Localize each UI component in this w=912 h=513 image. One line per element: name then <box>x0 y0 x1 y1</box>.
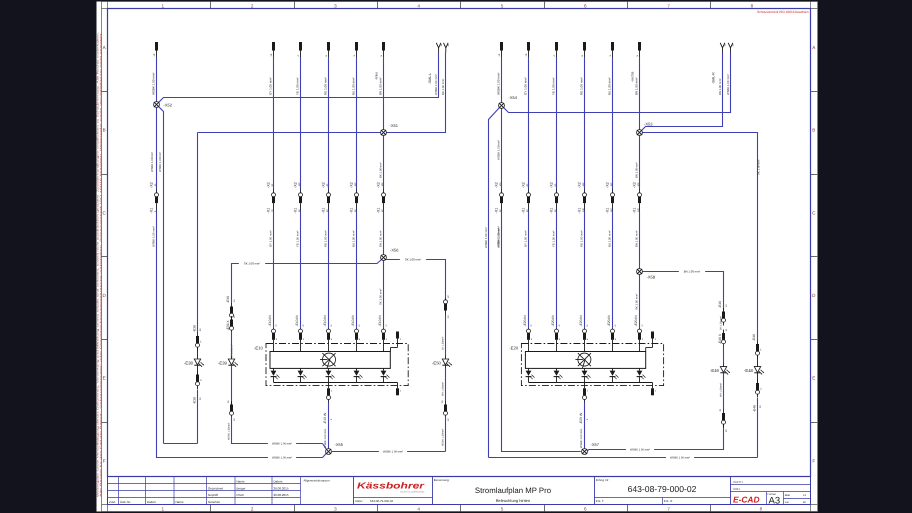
terminal 2 stub -E20 <box>646 332 657 352</box>
svg-text:-E10.IN: -E10.IN <box>351 315 355 327</box>
svg-text:-E48: -E48 <box>752 334 756 341</box>
logo cell Kaessbohrer <box>354 477 433 505</box>
wire -E39 return to -XS5 <box>323 444 327 450</box>
svg-text:-X57: -X57 <box>591 442 600 447</box>
plant codes and format cell <box>731 480 811 507</box>
wire -X54 strand B down <box>501 109 503 189</box>
terminal pin -links (BN) <box>380 42 385 57</box>
svg-text:RD 1.00 mm²: RD 1.00 mm² <box>324 77 328 95</box>
module input pin -E20.IN 5 <box>579 315 589 352</box>
svg-text:13C: 13C <box>381 182 384 186</box>
svg-text:14C: 14C <box>298 182 301 186</box>
wire -E49 to lower pin <box>723 396 725 410</box>
svg-text:+KB1: +KB1 <box>733 487 741 491</box>
svg-text:WSBK 1.00 mm²: WSBK 1.00 mm² <box>497 73 501 95</box>
svg-text:-E39 X: -E39 X <box>226 320 230 331</box>
ground rail strand A to -E48 <box>489 457 758 459</box>
svg-text:1C: 1C <box>447 295 450 298</box>
terminal pin right c1 (WSBK) <box>498 42 503 57</box>
svg-text:-E39: -E39 <box>218 360 228 365</box>
connector -X2/-X1 pins column 6 right circuit <box>632 182 641 213</box>
svg-text:-X2: -X2 <box>266 182 270 188</box>
svg-text:1C: 1C <box>154 183 157 186</box>
pin -E39 <box>226 296 236 321</box>
cathode rail -E20 <box>529 382 653 384</box>
wire c3 upper right <box>556 57 558 189</box>
svg-text:643-08-79-000-02: 643-08-79-000-02 <box>628 484 697 494</box>
svg-text:WSBK 1.00 mm²: WSBK 1.00 mm² <box>497 226 501 247</box>
svg-text:2: 2 <box>251 506 254 511</box>
svg-text:BU 1.00 mm²: BU 1.00 mm² <box>352 77 356 95</box>
wire c2 upper right <box>528 57 530 189</box>
svg-text:WH 1.00mm²: WH 1.00mm² <box>442 382 445 396</box>
socket -SML-L pin 10 <box>444 43 451 53</box>
svg-text:BU 1.00 mm²: BU 1.00 mm² <box>608 77 612 95</box>
terminal pin (GY) <box>270 42 275 57</box>
connector -X2/-X1 pins column 5 left circuit <box>349 182 358 213</box>
svg-text:WSBK 1.00 mm²: WSBK 1.00 mm² <box>152 226 156 247</box>
svg-text:Berger: Berger <box>237 486 246 490</box>
LED D1 in -E10 <box>271 368 280 382</box>
connector -X2/-X1 pins column 1 left circuit <box>149 182 158 213</box>
svg-text:3C: 3C <box>271 183 274 186</box>
svg-text:-X1: -X1 <box>149 208 153 214</box>
svg-text:-E50: -E50 <box>432 360 442 365</box>
svg-text:-X58: -X58 <box>647 275 656 280</box>
svg-text:BU 1.00 mm²: BU 1.00 mm² <box>352 230 356 247</box>
pin 1 of -E38 <box>192 325 202 351</box>
wire c6 below -XS6 <box>383 261 385 328</box>
LED D5 in -E20 <box>637 368 646 382</box>
column ticks top band <box>211 2 711 9</box>
svg-text:F: F <box>103 458 106 463</box>
LED D2 in -E20 <box>554 368 563 382</box>
wire label SK 1.00 mm2 left <box>239 261 265 265</box>
svg-text:5: 5 <box>501 4 504 9</box>
svg-text:Beleuchtung hinten: Beleuchtung hinten <box>496 498 530 503</box>
wire right c2 to -E20 <box>528 211 530 328</box>
wire c2 upper <box>273 57 275 189</box>
svg-text:BN 1.00 mm²: BN 1.00 mm² <box>379 77 383 95</box>
svg-text:-E48: -E48 <box>752 405 756 412</box>
terminal 1 right -E10 <box>396 383 402 396</box>
splice -X53 <box>637 130 643 136</box>
terminal 2 stub -E10 <box>391 332 402 352</box>
module input pin -E10.IN 4 <box>295 315 305 352</box>
svg-text:-E20.IN: -E20.IN <box>523 315 527 327</box>
wire c6 below -X51 <box>383 136 385 189</box>
terminal pin right c2 (GY) <box>525 42 530 57</box>
title block outline <box>108 477 811 505</box>
svg-text:-X1: -X1 <box>549 208 553 214</box>
pin 2 of -E38 <box>196 365 203 389</box>
wire label WSBK upper rail <box>268 441 296 445</box>
row ticks left band <box>102 92 108 423</box>
svg-text:26.08.2015: 26.08.2015 <box>274 493 289 497</box>
svg-text:-X1: -X1 <box>521 208 525 214</box>
svg-text:Blatt: Blatt <box>785 494 790 497</box>
svg-text:Stromlaufplan MP Pro: Stromlaufplan MP Pro <box>475 486 552 495</box>
svg-text:Geprüft: Geprüft <box>208 493 218 497</box>
svg-text:-X53: -X53 <box>644 122 653 127</box>
terminal pin 10 (WSBK feed) <box>153 42 158 57</box>
svg-text:-E10.IN: -E10.IN <box>378 315 382 327</box>
svg-text:8: 8 <box>751 4 754 9</box>
svg-text:8: 8 <box>760 506 763 511</box>
svg-text:-X2: -X2 <box>521 182 525 188</box>
svg-text:SK 1.00 mm²: SK 1.00 mm² <box>379 289 383 305</box>
svg-text:9C: 9C <box>554 183 557 186</box>
wire WSBK strand A down <box>156 108 158 189</box>
svg-text:10C: 10C <box>582 182 585 186</box>
wire WSBK strand B down <box>159 107 164 444</box>
svg-text:3C: 3C <box>725 429 728 432</box>
svg-text:-X2: -X2 <box>293 182 297 188</box>
splice -XS8 <box>637 269 643 275</box>
splice -X54 <box>499 103 505 109</box>
svg-text:-SML-R: -SML-R <box>712 72 716 84</box>
pin -E49.X <box>718 328 728 347</box>
LED D2 in -E10 <box>298 368 307 382</box>
svg-text:-E38: -E38 <box>192 397 196 404</box>
svg-text:WSBK 1.00 mm²: WSBK 1.00 mm² <box>272 457 292 460</box>
svg-text:Kässbohrer: Kässbohrer <box>357 481 425 491</box>
svg-text:-X56: -X56 <box>390 248 399 253</box>
wire -X53 right to -E48 feed <box>643 133 758 341</box>
wire c4 upper <box>328 57 330 189</box>
svg-text:-E48: -E48 <box>744 368 754 373</box>
LED -E38 <box>184 347 204 367</box>
svg-text:-X51: -X51 <box>390 123 399 128</box>
pin -E39.X <box>226 315 236 334</box>
svg-text:Schutzvermerk ISO 16016 beacht: Schutzvermerk ISO 16016 beachten <box>757 10 809 14</box>
terminal 1 centre -E10 with socket <box>327 383 333 403</box>
svg-text:+GETH: +GETH <box>733 480 743 484</box>
splice -XS7 <box>582 449 588 455</box>
svg-text:1: 1 <box>162 506 165 511</box>
svg-text:E-CAD: E-CAD <box>733 495 760 505</box>
wire c2 to -E10 <box>273 211 275 328</box>
svg-text:E: E <box>812 376 815 381</box>
LED -E48 <box>744 355 764 375</box>
svg-text:WSBK 1.00mm²: WSBK 1.00mm² <box>442 429 445 446</box>
svg-text:-X2: -X2 <box>321 182 325 188</box>
svg-text:B: B <box>103 128 106 133</box>
svg-text:RD 1.00 mm²: RD 1.00 mm² <box>324 230 328 247</box>
left margin copyright disclaimer text <box>97 31 103 497</box>
wire label WSBK right rail <box>379 449 407 453</box>
module input pin -E20.IN 2 <box>634 315 644 352</box>
wire -E20 return to -XS7 <box>584 403 586 449</box>
svg-text:-X1: -X1 <box>349 208 353 214</box>
svg-text:-E49 X: -E49 X <box>718 333 722 344</box>
module input pin -E10.IN 6 <box>351 315 361 352</box>
svg-text:BK 1.00 mm²: BK 1.00 mm² <box>441 79 445 95</box>
module -E10 body <box>270 352 390 369</box>
svg-text:BN 1.00 mm²: BN 1.00 mm² <box>635 77 639 95</box>
svg-text:F: F <box>812 458 815 463</box>
svg-text:Ers. d:: Ers. d: <box>664 499 673 503</box>
socket -SML-R pin 16 <box>728 43 735 53</box>
svg-text:GY 1.00 mm²: GY 1.00 mm² <box>524 77 528 95</box>
wire feed right c1 <box>501 57 503 103</box>
svg-text:SK 1.00 mm²: SK 1.00 mm² <box>244 262 260 266</box>
svg-text:BN 1.00 mm²: BN 1.00 mm² <box>718 78 722 95</box>
splice -X52 <box>154 102 160 108</box>
svg-text:-E20.IN: -E20.IN <box>607 315 611 327</box>
wire c6 to splice -XS6 <box>383 211 385 255</box>
svg-text:BN 1.00 mm²: BN 1.00 mm² <box>379 230 383 247</box>
svg-text:WSBK 1.00 mm²: WSBK 1.00 mm² <box>272 443 292 446</box>
svg-text:11C: 11C <box>610 182 613 186</box>
splice -XS5 <box>326 449 332 455</box>
svg-text:-X2: -X2 <box>577 182 581 188</box>
svg-text:WSBK 1.00mm²: WSBK 1.00mm² <box>228 423 231 440</box>
module input pin -E20.IN 3 <box>523 315 533 352</box>
svg-text:A3: A3 <box>769 496 781 507</box>
wire right c3 to -E20 <box>556 211 558 328</box>
svg-text:6: 6 <box>584 4 587 9</box>
socket -SML-L pin 16 <box>436 43 443 53</box>
svg-text:SK 1.00 mm²: SK 1.00 mm² <box>405 258 421 262</box>
pin 30 of -E39 <box>227 400 236 421</box>
svg-text:-E20 IN: -E20 IN <box>579 412 583 424</box>
svg-text:1C: 1C <box>233 418 236 421</box>
wire right c4 to -E20 <box>584 211 586 328</box>
connector -X2/-X1 pins column 1 right circuit <box>494 182 503 214</box>
cathode rail -E10 <box>274 382 398 384</box>
svg-text:Prizer: Prizer <box>237 493 245 497</box>
svg-text:Gesehen: Gesehen <box>208 500 221 504</box>
svg-text:-X1: -X1 <box>321 208 325 214</box>
svg-text:12C: 12C <box>637 182 640 186</box>
svg-text:26.08.2015: 26.08.2015 <box>274 486 289 490</box>
svg-text:4C: 4C <box>326 183 329 186</box>
wire label WSBK lower rail <box>268 455 296 459</box>
terminal pin (RD) <box>325 42 330 57</box>
connector -X2/-X1 pins column 6 left circuit <box>376 182 385 213</box>
row letters left <box>103 45 107 463</box>
svg-text:Zchng. Nr :: Zchng. Nr : <box>596 478 610 482</box>
svg-text:BN 1.00 mm²: BN 1.00 mm² <box>684 270 701 274</box>
wire feed c1 to splice <box>156 57 158 102</box>
LED D5 in -E10 <box>381 368 390 382</box>
svg-text:Änd.-Nr.: Änd.-Nr. <box>120 500 131 504</box>
svg-text:3: 3 <box>334 506 337 511</box>
svg-text:1C: 1C <box>447 418 450 421</box>
svg-text:WSBK 1.00 mm²: WSBK 1.00 mm² <box>726 74 730 95</box>
svg-text:-E20: -E20 <box>509 346 519 351</box>
pin 30 of -E50 <box>441 400 450 421</box>
svg-text:Name: Name <box>176 500 184 504</box>
module -E10 dashed enclosure <box>266 344 408 386</box>
sheet border and reference band grid <box>102 2 818 512</box>
wire c1 strand A to ground rail <box>157 211 327 458</box>
wire -E49 into LED <box>723 345 725 364</box>
svg-text:-X55: -X55 <box>335 442 344 447</box>
wire label WSBK strand A rail <box>666 455 694 459</box>
wire -E50 into LED <box>445 315 447 356</box>
svg-text:SK 1.00mm²: SK 1.00mm² <box>442 337 445 350</box>
wire label BN 1.00 mm2 <box>679 269 705 273</box>
pin -E50 upper <box>444 295 450 318</box>
wire right c1 to -XS7 <box>502 211 581 452</box>
svg-text:-SML-L: -SML-L <box>428 73 432 84</box>
LED D4 in -E10 <box>354 368 363 382</box>
svg-text:-E10.IN: -E10.IN <box>295 315 299 327</box>
svg-text:3: 3 <box>334 4 337 9</box>
svg-text:-X1: -X1 <box>494 208 498 214</box>
white drawing sheet <box>97 2 819 512</box>
wire c4 to -E10 <box>328 211 330 328</box>
svg-text:-X1: -X1 <box>266 208 270 214</box>
svg-text:6: 6 <box>584 506 587 511</box>
connector -X2/-X1 pins column 3 right circuit <box>549 182 558 213</box>
svg-text:BN 1.00 mm²: BN 1.00 mm² <box>635 230 639 247</box>
wire -E48 return <box>757 398 759 458</box>
connector -X2/-X1 pins column 5 right circuit <box>605 182 614 213</box>
svg-text:RD 1.00 mm²: RD 1.00 mm² <box>580 77 584 95</box>
wire -X54 strand A diagonal <box>489 108 500 458</box>
svg-text:BN 1.00mm²: BN 1.00mm² <box>635 162 639 178</box>
svg-text:7: 7 <box>667 506 670 511</box>
wire -E39 below LED <box>231 365 233 404</box>
wire -X53 to -SML-R <box>642 53 723 131</box>
LED -E49 <box>710 367 730 375</box>
svg-text:8C: 8C <box>526 183 529 186</box>
svg-text:-X1: -X1 <box>577 208 581 214</box>
connector -X2/-X1 pins column 4 right circuit <box>577 182 586 213</box>
svg-text:WSBK 1.00 mm²: WSBK 1.00 mm² <box>484 227 488 248</box>
LED -E39 <box>218 359 238 367</box>
wire -XS6 right to -E50 feed <box>386 260 445 302</box>
wire -X51 right to -SML-L <box>387 53 446 133</box>
wire -XS7 right to -E49 return <box>588 424 724 451</box>
pin -E49 <box>718 301 728 326</box>
row letters right <box>812 45 816 463</box>
svg-text:7: 7 <box>667 4 670 9</box>
LED D3 in -E20 <box>582 368 591 382</box>
svg-text:Zust.: Zust. <box>109 500 116 504</box>
column numbers bottom <box>162 506 763 511</box>
svg-text:4: 4 <box>417 506 420 511</box>
svg-text:YE 1.00 mm²: YE 1.00 mm² <box>552 231 556 247</box>
svg-text:WSBK 1.00 mm²: WSBK 1.00 mm² <box>670 457 690 460</box>
module -E20 body <box>525 352 645 369</box>
svg-text:GY 1.00 mm²: GY 1.00 mm² <box>269 230 273 247</box>
pin 2 of -E48 <box>756 373 763 398</box>
svg-text:-E49: -E49 <box>718 301 722 308</box>
svg-text:WSBK 1.00mm²: WSBK 1.00mm² <box>158 152 162 172</box>
wire -X51 left to -E38 feed <box>198 132 381 134</box>
wire c3 upper <box>300 57 302 189</box>
svg-text:RD 1.00 mm²: RD 1.00 mm² <box>580 230 584 247</box>
svg-text:WSBK 1.00 mm²: WSBK 1.00 mm² <box>152 73 156 95</box>
svg-text:WSBK 1.00 mm²: WSBK 1.00 mm² <box>434 74 438 95</box>
svg-text:4: 4 <box>417 4 420 9</box>
svg-text:BN 1.00 mm²: BN 1.00 mm² <box>720 316 723 330</box>
svg-text:WSBK 1.00 mm²: WSBK 1.00 mm² <box>630 449 650 452</box>
wire -X52 to -SML-L <box>159 53 439 103</box>
column numbers top <box>162 4 754 9</box>
module input pin -E10.IN 5 <box>323 315 333 352</box>
svg-text:YE 1.00 mm²: YE 1.00 mm² <box>296 231 300 247</box>
wire c5 upper right <box>612 57 614 189</box>
svg-text:-X1: -X1 <box>605 208 609 214</box>
module input pin -E10.IN 3 <box>268 315 278 352</box>
wire -E38 return <box>197 390 199 444</box>
wire label WSBK right of XS7 <box>626 447 654 451</box>
svg-text:-E49: -E49 <box>710 368 720 373</box>
splice -XS6 <box>381 255 387 261</box>
wire c6 below -X53 <box>639 136 641 189</box>
svg-text:-E10.IN: -E10.IN <box>323 315 327 327</box>
splice -X51 <box>381 130 387 136</box>
wire -E50 return <box>445 417 447 452</box>
wire -E10 return to -XS5 <box>328 403 330 449</box>
svg-text:-E20.IN: -E20.IN <box>634 315 638 327</box>
wire -E39 into LED <box>231 332 233 357</box>
svg-text:-X2: -X2 <box>149 182 153 188</box>
svg-text:1: 1 <box>162 4 165 9</box>
wire -E38 feed down <box>197 133 199 333</box>
svg-text:16C: 16C <box>354 182 357 186</box>
svg-text:-E10: -E10 <box>254 346 264 351</box>
wire right c6 below -XS8 <box>639 275 641 328</box>
wire -XS5 right to -E50 return <box>332 451 446 453</box>
svg-text:Gezeichnet: Gezeichnet <box>208 486 223 490</box>
svg-text:-X2: -X2 <box>549 182 553 188</box>
svg-text:YE 1.00 mm²: YE 1.00 mm² <box>552 77 556 95</box>
svg-text:Datum: Datum <box>274 479 283 483</box>
svg-text:Driven by professionals´: Driven by professionals´ <box>400 491 425 494</box>
ground rail upper left to -XS5 <box>232 443 323 445</box>
svg-text:-X2: -X2 <box>376 182 380 188</box>
wire -X54 to -SML-R <box>504 53 731 113</box>
connector -X2/-X1 pins column 4 left circuit <box>321 182 330 213</box>
LED -E50 <box>432 359 452 367</box>
svg-text:Bl.: Bl. <box>803 501 806 504</box>
svg-text:YE 1.00 mm²: YE 1.00 mm² <box>296 77 300 95</box>
connector -X2/-X1 pins column 3 left circuit <box>293 182 302 213</box>
lamp symbol in -E10 <box>320 353 336 368</box>
svg-text:-E39: -E39 <box>226 296 230 303</box>
svg-text:von: von <box>785 501 790 504</box>
terminal pin right c4 (RD) <box>581 42 586 57</box>
svg-text:SK 1.00 mm²: SK 1.00 mm² <box>635 294 639 310</box>
svg-text:Ers. f:: Ers. f: <box>596 499 604 503</box>
terminal pin right c3 (YE) <box>553 42 558 57</box>
row ticks right band <box>811 92 818 423</box>
svg-text:-E10.IN: -E10.IN <box>268 315 272 327</box>
LED D4 in -E20 <box>610 368 619 382</box>
svg-text:5: 5 <box>501 506 504 511</box>
module input pin -E10.IN 2 <box>378 315 388 352</box>
socket -SML-R pin 10 <box>720 43 727 53</box>
svg-text:-X2: -X2 <box>605 182 609 188</box>
wire -XS6 left to -E39 feed <box>232 260 382 303</box>
svg-text:-X52: -X52 <box>164 102 173 107</box>
wire right c5 to -E20 <box>612 211 614 328</box>
svg-text:-E38: -E38 <box>184 360 194 365</box>
svg-text:-X2: -X2 <box>349 182 353 188</box>
svg-text:-E20.IN: -E20.IN <box>579 315 583 327</box>
svg-text:WSBK 1.00mm²: WSBK 1.00mm² <box>150 152 154 172</box>
svg-text:-X1: -X1 <box>293 208 297 214</box>
svg-text:Datum: Datum <box>147 500 156 504</box>
svg-text:Allgemeintoleranzen: Allgemeintoleranzen <box>304 478 331 482</box>
wire -E50 below LED <box>445 365 447 368</box>
